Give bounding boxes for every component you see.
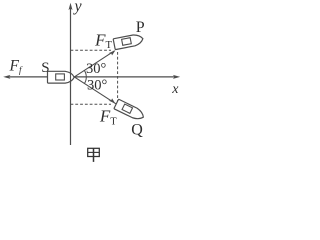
svg-text:Ff: Ff bbox=[9, 58, 23, 76]
label jia (Chinese) drawn as strokes bbox=[88, 148, 100, 162]
y-axis overlay through bow bbox=[70, 70, 72, 84]
svg-text:30°: 30° bbox=[86, 61, 107, 77]
boat P bbox=[113, 33, 144, 49]
x-axis bbox=[3, 75, 180, 79]
wire rope to P bbox=[74, 51, 114, 77]
y-axis bbox=[69, 3, 73, 145]
wire rope to Q bbox=[74, 77, 116, 104]
svg-text:FT: FT bbox=[99, 107, 117, 128]
angle arc upper 30deg bbox=[84, 70, 86, 77]
dashed projection line upper horizontal bbox=[71, 49, 112, 51]
angle arc lower 30deg bbox=[84, 77, 86, 84]
dashed projection line lower horizontal bbox=[71, 103, 112, 105]
boat Q bbox=[114, 99, 146, 122]
svg-text:y: y bbox=[73, 0, 83, 15]
dashed projection line vertical bbox=[117, 52, 119, 105]
arrow F_T upper bbox=[108, 50, 115, 55]
svg-text:Q: Q bbox=[131, 122, 143, 139]
svg-text:x: x bbox=[171, 82, 179, 97]
arrow F_T lower bbox=[108, 98, 115, 103]
svg-text:S: S bbox=[41, 60, 49, 76]
svg-text:FT: FT bbox=[94, 30, 112, 51]
svg-text:P: P bbox=[136, 19, 145, 36]
boat S bbox=[48, 71, 75, 83]
svg-text:30°: 30° bbox=[87, 77, 108, 93]
